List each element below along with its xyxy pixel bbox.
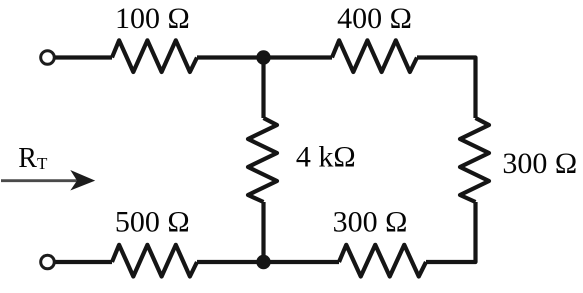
svg-text:300 Ω: 300 Ω	[502, 147, 577, 180]
wire (4-kohm resistor down to node B)	[261, 202, 265, 262]
resistor 300 ohm (bottom, horizontal zigzag)	[339, 245, 426, 277]
wire (node A to 400-ohm resistor)	[264, 55, 333, 59]
resistor 100 ohm (top-left, horizontal zigzag)	[112, 40, 197, 72]
wire (500-ohm resistor to bottom-left terminal)	[55, 260, 112, 264]
terminal T1 (top-left open circle)	[41, 51, 55, 65]
node A (top junction dot)	[256, 50, 270, 64]
resistor 4 kohm (middle, vertical zigzag)	[248, 118, 277, 202]
wire (top-left terminal to 100-ohm resistor)	[55, 55, 112, 59]
svg-text:RT: RT	[18, 143, 48, 174]
resistor 500 ohm (bottom-left, horizontal zigzag)	[112, 245, 197, 277]
terminal T2 (bottom-left open circle)	[41, 255, 55, 269]
wire (node A down to 4-kohm resistor)	[261, 58, 265, 119]
svg-text:500 Ω: 500 Ω	[115, 206, 190, 239]
wire (right 300-ohm resistor to bottom-right corner, to bottom 300-ohm resistor)	[426, 202, 476, 262]
resistor 300 ohm (right side, vertical zigzag)	[460, 118, 489, 202]
svg-text:4 kΩ: 4 kΩ	[296, 141, 356, 174]
svg-text:300 Ω: 300 Ω	[333, 206, 408, 239]
node B (bottom junction dot)	[256, 255, 270, 269]
wire (bottom 300-ohm resistor to node B)	[264, 260, 340, 264]
wire (100-ohm resistor to node A)	[197, 55, 264, 59]
svg-text:100 Ω: 100 Ω	[115, 2, 190, 35]
resistor 400 ohm (top-right, horizontal zigzag)	[332, 40, 417, 72]
svg-text:400 Ω: 400 Ω	[337, 2, 412, 35]
wire (400-ohm resistor to top-right corner, down to right 300-ohm resistor)	[417, 58, 476, 119]
arrow (RT direction indicator)	[1, 170, 95, 191]
wire (node B to 500-ohm resistor)	[197, 260, 264, 264]
